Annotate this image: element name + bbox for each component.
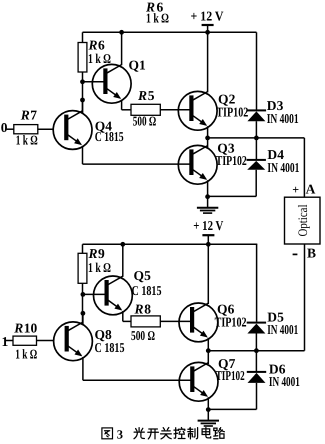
node R6/Q1 base junction: [80, 79, 85, 84]
caption char 制: [188, 428, 198, 439]
wire Q1 collector to rail: [121, 32, 123, 65]
svg-text:C 1815: C 1815: [95, 340, 125, 355]
diode D5: [247, 244, 266, 350]
wire Q3 emitter to ground: [207, 180, 209, 197]
svg-text:C 1815: C 1815: [95, 129, 124, 144]
svg-text:10: 10: [24, 321, 38, 336]
node rail/+12V junction (bottom): [206, 242, 211, 247]
node Q3 emitter/ground junction: [205, 194, 210, 199]
label D3: [267, 98, 284, 113]
label D6: [269, 362, 286, 377]
wire Q7 collector: [207, 351, 209, 364]
transistor Q3: [178, 145, 217, 184]
wire R5 to Q2 base: [160, 109, 191, 111]
svg-text:8: 8: [144, 302, 151, 317]
svg-text:IN 4001: IN 4001: [269, 374, 300, 389]
label Q8: [95, 327, 113, 342]
transistor Q5: [94, 276, 133, 315]
wire Q1 base lead: [83, 81, 106, 83]
node D5/D6 junction: [254, 348, 259, 353]
svg-text:500 Ω: 500 Ω: [133, 113, 157, 128]
wire Q3 collector: [207, 138, 209, 148]
svg-text:1 k Ω: 1 k Ω: [16, 132, 38, 147]
label R9: [88, 246, 112, 275]
label D6 type: [269, 374, 300, 389]
svg-text:R: R: [137, 88, 147, 103]
transistor Q6: [179, 303, 218, 342]
svg-text:R: R: [13, 321, 23, 336]
power +12V terminal (bottom): [193, 218, 223, 244]
transistor Q4: [53, 111, 92, 150]
svg-text:R: R: [20, 108, 30, 123]
ground (top half): [197, 197, 218, 213]
caption text 3: [117, 428, 123, 442]
label Q5 type: [132, 283, 162, 298]
terminal + A: [292, 181, 315, 196]
wire Q5 collector to rail: [122, 244, 124, 276]
label R5: [137, 88, 155, 103]
diode D4: [208, 138, 266, 197]
caption char 开: [148, 429, 159, 439]
resistor R5: [131, 104, 160, 115]
node Q7 emitter/ground junction: [206, 407, 211, 412]
wire Q7 emitter to ground: [207, 397, 209, 409]
node R9/Q5 base junction: [81, 292, 86, 297]
diode D6: [208, 351, 266, 410]
label D3 type: [267, 111, 299, 126]
wire +12V rail (top): [83, 31, 257, 33]
svg-text:7: 7: [30, 108, 37, 123]
label Q6 type: [215, 315, 247, 330]
svg-text:5: 5: [148, 88, 155, 103]
svg-text:+ 12 V: + 12 V: [193, 218, 223, 233]
label Q1: [129, 58, 147, 73]
label D5 type: [267, 322, 298, 337]
svg-text:TIP102: TIP102: [216, 368, 245, 383]
label R8: [134, 302, 152, 317]
svg-text:+ 12 V: + 12 V: [191, 9, 224, 24]
caption char 电: [202, 428, 211, 438]
input terminal 1: [2, 334, 14, 349]
svg-text:B: B: [307, 246, 316, 261]
wire Q8 collector: [82, 313, 84, 325]
label D5: [267, 310, 284, 325]
label Q4: [95, 118, 113, 133]
label R10 value: [15, 347, 37, 362]
svg-text:TIP102: TIP102: [216, 153, 247, 168]
node Q8 collector junction: [81, 311, 86, 316]
svg-text:1 k Ω: 1 k Ω: [88, 51, 111, 66]
resistor R7: [14, 125, 54, 134]
label R6 value: [88, 38, 112, 66]
label Q5: [134, 268, 152, 283]
svg-text:+: +: [292, 182, 299, 196]
label R7 value: [16, 132, 38, 147]
node Q4 collector junction: [80, 98, 85, 103]
label Optical: [295, 204, 310, 236]
caption char 图: [102, 428, 113, 439]
node rail/+12V junction (top): [205, 30, 210, 35]
label D4 type: [267, 160, 299, 175]
label R10: [13, 321, 37, 336]
transistor Q8: [54, 322, 93, 361]
transistor Q7: [179, 362, 218, 401]
svg-text:5: 5: [144, 268, 151, 283]
caption char 光: [134, 428, 144, 439]
resistor R10: [13, 336, 54, 345]
resistor R8: [131, 316, 160, 327]
label Q3: [217, 141, 235, 156]
label Q6: [217, 302, 235, 317]
svg-text:Q: Q: [129, 58, 140, 73]
label Q3 type: [216, 153, 247, 168]
label Q2: [218, 92, 236, 107]
wire Q5 emitter to R8: [123, 311, 131, 321]
svg-text:1: 1: [2, 334, 9, 349]
label R7: [20, 108, 38, 123]
ground (bottom half): [198, 410, 219, 426]
wire R8 to Q6 base: [160, 320, 192, 322]
power +12V terminal (top): [191, 9, 224, 33]
label R5 value: [133, 113, 157, 128]
svg-text:0: 0: [1, 120, 8, 135]
wire Q2 collector to rail: [207, 32, 209, 92]
optical switch box: [285, 197, 321, 244]
svg-text:9: 9: [98, 246, 105, 261]
svg-text:IN 4001: IN 4001: [267, 160, 299, 175]
label R8 value: [131, 328, 155, 343]
svg-text:R: R: [134, 302, 144, 317]
node rail/Q5 collector junction: [120, 242, 125, 247]
label Q7: [218, 356, 236, 371]
wire Q8 emitter to Q7 base: [83, 357, 192, 380]
wire Q2 emitter to node: [207, 126, 209, 138]
wire Q4 emitter to Q3 base: [83, 146, 192, 164]
label R6 1kOhm (top, for rail resistor): [145, 0, 169, 25]
label Q8 type: [95, 340, 125, 355]
caption char 路: [214, 428, 225, 439]
wire Q1 emitter to R5: [122, 100, 131, 110]
wire Q6 emitter to node: [207, 338, 209, 351]
svg-text:A: A: [306, 181, 316, 196]
svg-text:TIP102: TIP102: [216, 105, 248, 120]
transistor Q2: [178, 91, 217, 130]
svg-text:R: R: [88, 246, 98, 261]
svg-text:Optical: Optical: [295, 204, 310, 236]
label Q4 type: [95, 129, 124, 144]
input terminal 0: [1, 120, 14, 135]
caption char 关: [161, 428, 172, 439]
wire B terminal line: [304, 244, 306, 351]
wire Q5 base lead: [83, 293, 107, 295]
svg-text:IN 4001: IN 4001: [267, 111, 299, 126]
wire output node B line: [208, 350, 304, 352]
svg-text:500 Ω: 500 Ω: [131, 328, 155, 343]
terminal - B: [293, 246, 316, 261]
label D4: [267, 147, 284, 162]
wire +12V rail (bottom): [83, 243, 258, 245]
svg-text:1: 1: [139, 58, 146, 73]
node Q2/Q3 junction: [205, 136, 210, 141]
diode D3: [247, 32, 266, 138]
wire Q6 collector to rail: [207, 244, 209, 304]
transistor Q1: [92, 64, 131, 103]
label Q7 type: [216, 368, 245, 383]
svg-text:Q: Q: [134, 268, 145, 283]
node Q6/Q7 junction: [206, 348, 211, 353]
node rail/Q1 collector junction: [119, 30, 124, 35]
resistor R9: [78, 244, 87, 324]
svg-text:1 k Ω: 1 k Ω: [88, 260, 111, 275]
svg-text:1 k Ω: 1 k Ω: [15, 347, 37, 362]
svg-text:1 k Ω: 1 k Ω: [146, 10, 169, 25]
resistor R6: [78, 32, 87, 113]
node D3/D4 junction: [254, 136, 259, 141]
svg-text:IN 4001: IN 4001: [267, 322, 298, 337]
svg-text:C 1815: C 1815: [132, 283, 162, 298]
caption char 控: [174, 428, 185, 439]
svg-text:3: 3: [117, 428, 123, 442]
svg-text:TIP102: TIP102: [215, 315, 247, 330]
label Q2 type: [216, 105, 248, 120]
wire Q4 collector: [82, 100, 84, 114]
wire output node A line: [208, 138, 305, 197]
